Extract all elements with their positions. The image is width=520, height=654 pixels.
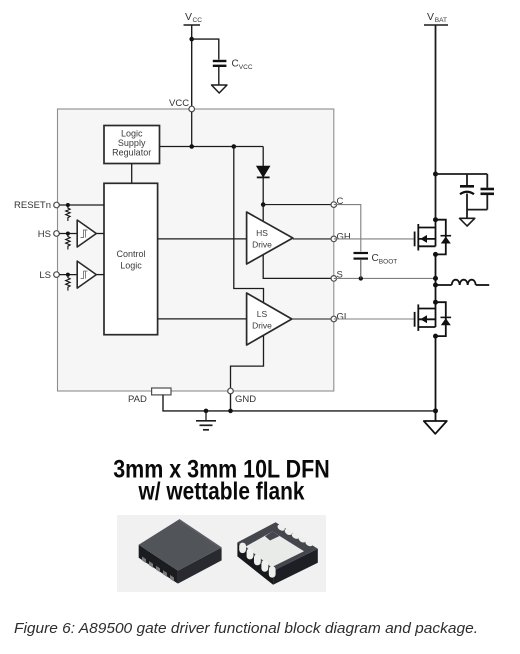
- pin C: [331, 202, 337, 208]
- package photo backdrop: [117, 515, 326, 592]
- wire HS input: [59, 233, 77, 235]
- ground (chassis) under CVCC: [212, 85, 228, 93]
- svg-text:GND: GND: [235, 394, 256, 405]
- node regulator/VCC junction: [189, 144, 194, 149]
- diode D1: [257, 147, 270, 205]
- wire to CVCC: [192, 39, 219, 59]
- ground earth symbol: [196, 411, 216, 430]
- svg-text:GH: GH: [337, 231, 351, 242]
- svg-text:V: V: [185, 11, 192, 23]
- ground (chassis) under caps: [460, 218, 475, 226]
- node inductor junction: [433, 283, 438, 288]
- ground (chassis) bottom right: [424, 421, 447, 434]
- wire regulator to control logic: [131, 164, 133, 184]
- regulator block U-REG: [104, 126, 160, 164]
- svg-text:HS: HS: [38, 229, 51, 240]
- node LS pulldown junction: [66, 273, 70, 277]
- wire regulator output: [160, 146, 264, 148]
- capacitor ceramic: [467, 174, 494, 210]
- buffer schmitt HS: [77, 220, 96, 247]
- svg-text:Supply: Supply: [118, 138, 146, 148]
- supply VBAT symbol: [424, 11, 448, 25]
- pin GH: [331, 236, 337, 242]
- node LS-supply junction: [232, 144, 237, 149]
- svg-text:Logic: Logic: [121, 129, 143, 139]
- node S junction: [433, 276, 438, 281]
- wire VCC supply down: [191, 25, 193, 109]
- buffer schmitt LS: [77, 261, 96, 288]
- node RESETn pulldown junction: [66, 203, 70, 207]
- svg-text:CC: CC: [193, 17, 203, 24]
- wire RESETn: [59, 204, 104, 206]
- wire HS buffer to control: [96, 233, 104, 235]
- svg-text:w/ wettable flank: w/ wettable flank: [138, 478, 305, 506]
- node VBAT cap branch: [433, 172, 438, 177]
- node ground rail / earth junction: [204, 409, 209, 414]
- wire S net to switch node: [334, 277, 436, 279]
- svg-text:Logic: Logic: [120, 261, 142, 271]
- wire GH to gate Q1: [334, 238, 415, 240]
- wire VCC internal: [191, 112, 193, 147]
- node HS pulldown junction: [66, 232, 70, 236]
- wire VBAT rail: [435, 25, 437, 220]
- node CBOOT on S: [359, 276, 363, 280]
- wire HS drive supply: [262, 205, 264, 222]
- capacitor bulk (polarized): [460, 174, 474, 218]
- svg-text:VCC: VCC: [169, 98, 189, 109]
- op-amp HS Drive: [247, 212, 293, 264]
- supply VCC symbol: [184, 11, 203, 25]
- wire cap branch: [436, 173, 488, 175]
- node ground rail / GND junction: [228, 409, 233, 414]
- wire LS drive supply: [234, 147, 264, 305]
- package left (3D top view): [139, 519, 222, 584]
- svg-text:C: C: [232, 59, 239, 70]
- op-amp LS Drive: [247, 293, 292, 345]
- svg-text:RESETn: RESETn: [14, 200, 51, 211]
- svg-text:LS: LS: [39, 270, 51, 281]
- wire GH net: [293, 238, 334, 240]
- wire LS buffer to control: [96, 274, 104, 276]
- IC boundary box: [58, 109, 334, 391]
- svg-text:V: V: [427, 11, 434, 23]
- svg-text:VCC: VCC: [239, 64, 253, 71]
- svg-text:Drive: Drive: [252, 321, 272, 331]
- svg-text:C: C: [337, 196, 344, 207]
- svg-text:Drive: Drive: [252, 240, 272, 250]
- resistor pulldown HS: [66, 234, 70, 250]
- pin GND: [228, 388, 234, 394]
- node VCC/CVCC junction: [189, 37, 194, 42]
- wire C to CBOOT: [334, 205, 361, 252]
- svg-text:BOOT: BOOT: [379, 259, 397, 266]
- transistor Q1 (high-side MOSFET): [415, 217, 452, 257]
- capacitor CVCC: [213, 59, 253, 86]
- svg-text:Regulator: Regulator: [112, 148, 151, 158]
- wire C net: [263, 204, 334, 206]
- wire PAD to ground rail: [163, 395, 436, 411]
- capacitor CBOOT: [354, 253, 398, 278]
- resistor pulldown RESETn: [66, 205, 70, 221]
- resistor pulldown LS: [66, 275, 70, 291]
- svg-text:PAD: PAD: [128, 394, 147, 405]
- inductor L1: [436, 280, 490, 285]
- svg-text:Control: Control: [116, 249, 145, 259]
- control logic block: [104, 183, 158, 334]
- wire switch node vertical: [435, 254, 437, 302]
- node ground rail right junction: [433, 408, 438, 413]
- wire control to LS drive: [158, 318, 247, 320]
- svg-text:BAT: BAT: [435, 17, 447, 24]
- wire GL net: [292, 318, 334, 320]
- wire Q2 source to ground rail: [435, 336, 437, 421]
- package right (bottom view with pads): [237, 522, 317, 585]
- wire GL to gate Q2: [334, 318, 415, 320]
- wire LS input: [59, 274, 77, 276]
- svg-text:C: C: [372, 253, 379, 264]
- wire control to HS drive: [158, 238, 247, 240]
- node C junction: [261, 202, 266, 207]
- wire HS drive return to S: [263, 255, 334, 278]
- svg-text:Figure 6: A89500 gate driver f: Figure 6: A89500 gate driver functional …: [14, 621, 478, 637]
- svg-text:GL: GL: [337, 311, 350, 322]
- transistor Q2 (low-side MOSFET): [415, 300, 452, 339]
- svg-text:LS: LS: [257, 309, 268, 319]
- svg-text:HS: HS: [256, 228, 268, 238]
- wire GND to ground rail: [230, 394, 232, 411]
- pin S: [331, 276, 337, 282]
- wire LS drive return to GND: [231, 336, 264, 391]
- pin GL: [331, 316, 337, 322]
